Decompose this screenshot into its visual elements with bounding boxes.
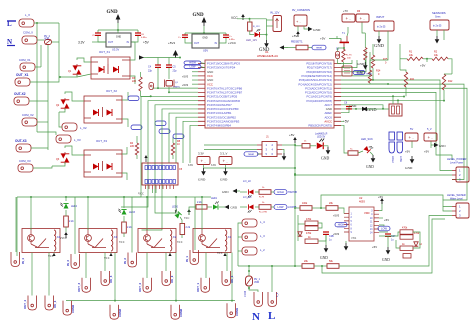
pad COM_X3	[18, 164, 33, 172]
supply 5_V	[424, 133, 437, 141]
relay K3 coil	[111, 230, 113, 251]
svg-text:GND: GND	[357, 62, 365, 66]
wire	[189, 207, 196, 215]
wire	[443, 30, 445, 40]
ground A	[201, 168, 206, 176]
svg-text:+ .: + .	[428, 135, 433, 140]
svg-text:GND: GND	[382, 258, 390, 262]
wire	[260, 34, 267, 36]
ground	[116, 14, 121, 23]
wire	[136, 155, 138, 159]
svg-text:VCC: VCC	[231, 16, 238, 20]
wire	[249, 19, 251, 22]
svg-text:OUT_X3: OUT_X3	[96, 139, 107, 143]
wire x	[175, 197, 177, 212]
wire	[318, 234, 326, 241]
capacitor C2B	[323, 232, 329, 234]
junction	[248, 270, 250, 272]
svg-text:OUT_1: OUT_1	[196, 283, 200, 292]
svg-text:LOW: LOW	[381, 227, 387, 231]
junction	[294, 144, 296, 146]
svg-text:xVCC: xVCC	[60, 237, 67, 240]
pad IN_4	[11, 252, 20, 267]
wire	[172, 137, 174, 143]
svg-text:L_1: L_1	[275, 292, 279, 297]
pad L_X	[19, 19, 34, 27]
svg-text:L_X: L_X	[25, 13, 30, 17]
svg-text:OUT_3: OUT_3	[77, 283, 81, 292]
wire	[122, 173, 127, 180]
wire U1 pin 15 to header	[190, 125, 198, 163]
ground	[264, 40, 269, 48]
wire U2 loop top	[321, 195, 443, 208]
wire x	[267, 25, 274, 27]
wire	[399, 44, 401, 70]
wire	[358, 151, 363, 153]
net flag reset2	[244, 152, 258, 156]
wire	[122, 92, 128, 100]
wire	[314, 265, 327, 267]
wire XTAL2b	[169, 87, 198, 92]
junction	[294, 265, 296, 267]
pad L	[268, 292, 277, 307]
wire	[157, 58, 159, 66]
supply VCC K3	[110, 253, 112, 254]
pad COM_X1	[20, 63, 35, 71]
junction	[65, 196, 67, 198]
svg-text:OUT_X2: OUT_X2	[106, 89, 117, 93]
svg-text:LOW: LOW	[190, 64, 196, 68]
connector S3	[342, 66, 352, 76]
transistor T1	[340, 36, 350, 48]
wire	[372, 108, 389, 110]
resistor R1	[407, 57, 423, 60]
wire AVCC	[341, 120, 344, 122]
svg-text:COM2: COM2	[179, 308, 183, 317]
wire COM rail	[66, 300, 235, 302]
LEVEL_WATER stubs	[452, 207, 456, 216]
wire	[225, 33, 227, 35]
junction	[392, 95, 394, 97]
wire	[337, 48, 339, 51]
wire PC1	[341, 96, 404, 98]
wire	[257, 153, 260, 155]
svg-text:IN_2: IN_2	[123, 258, 127, 264]
resistor 470k pair 2	[400, 230, 413, 234]
svg-text:LED1: LED1	[211, 197, 218, 200]
connector IN_12V	[273, 16, 282, 32]
relay K2 transistor	[144, 229, 151, 245]
wire x	[180, 217, 182, 224]
wire	[379, 231, 388, 233]
svg-text:OU_1: OU_1	[230, 275, 234, 283]
svg-text:IN: IN	[127, 41, 130, 44]
wire x	[370, 54, 388, 70]
svg-text:L_4: L_4	[260, 220, 265, 224]
resistor R12	[442, 74, 445, 90]
ground arrow left3	[367, 108, 372, 110]
diode D4	[414, 242, 419, 246]
svg-text:0.33u: 0.33u	[141, 37, 147, 39]
wire	[282, 150, 284, 154]
wire LED rail	[17, 196, 211, 198]
svg-text:HIGH: HIGH	[189, 60, 196, 64]
wire	[240, 206, 247, 208]
wire x	[201, 62, 205, 65]
svg-text:R_12V: R_12V	[253, 26, 260, 28]
junction	[294, 173, 296, 175]
svg-text:470k: 470k	[306, 232, 312, 235]
optocoupler OK2	[84, 96, 122, 123]
junction	[321, 265, 323, 267]
capacitor C7	[182, 35, 188, 37]
resistor R15	[371, 55, 374, 68]
svg-text:LED0: LED0	[172, 206, 179, 209]
junction	[348, 108, 350, 110]
wire	[59, 108, 65, 112]
wire	[392, 96, 394, 104]
svg-text:OUT: OUT	[108, 41, 114, 44]
svg-text:COM4: COM4	[71, 304, 75, 313]
wire 12V rail	[237, 18, 267, 20]
pad L_2	[242, 247, 257, 255]
wire	[370, 83, 388, 84]
wire	[185, 32, 226, 34]
svg-text:2.2k: 2.2k	[127, 226, 132, 229]
varistor RV_2	[45, 40, 52, 45]
wire PC5 to level power	[341, 80, 452, 170]
svg-text:OUT-X2: OUT-X2	[14, 92, 26, 96]
net flag HIGH	[274, 190, 287, 195]
resistor 1k	[305, 239, 318, 243]
wire x4	[443, 207, 452, 212]
wire relay to pad	[104, 253, 106, 272]
junction	[231, 300, 233, 302]
wire	[225, 165, 227, 168]
svg-text:reset: reset	[367, 73, 373, 76]
wire supply stub	[192, 79, 198, 81]
svg-text:ATMEGA328-AU: ATMEGA328-AU	[257, 54, 278, 58]
LED LED2 green	[172, 209, 182, 219]
wire	[117, 30, 119, 33]
wire	[400, 58, 407, 60]
supply VCC arrow	[241, 14, 245, 20]
wire	[207, 206, 212, 208]
svg-text:SENSORS: SENSORS	[432, 11, 446, 15]
pad COM3	[110, 305, 119, 320]
svg-text:LOW: LOW	[278, 205, 284, 209]
svg-text:COM: COM	[243, 291, 247, 297]
opto wires	[84, 154, 122, 173]
wire	[219, 38, 226, 43]
net flag LOW	[274, 205, 287, 210]
svg-text:GND: GND	[198, 178, 206, 182]
wire	[436, 30, 438, 36]
svg-text:+5V: +5V	[420, 64, 425, 68]
svg-text:OUT_X1: OUT_X1	[16, 73, 29, 77]
junction	[294, 167, 296, 169]
ground C2B	[324, 245, 329, 253]
svg-text:GND: GND	[349, 104, 357, 108]
svg-text:470k: 470k	[414, 232, 420, 235]
relay K3 transistor	[85, 229, 92, 245]
triac Q3	[61, 152, 70, 164]
opto zener	[107, 110, 113, 116]
test point LOW	[397, 132, 403, 140]
junction	[175, 196, 177, 198]
svg-text:VDD: VDD	[364, 211, 370, 215]
wire J1 SCK	[204, 149, 257, 151]
wire relay to pad	[31, 253, 33, 296]
wire	[219, 206, 225, 208]
wire sense	[238, 265, 302, 267]
capacitor C8	[346, 107, 352, 109]
LED LED1 green	[213, 201, 219, 209]
varistor RV_1	[246, 276, 253, 286]
wire relay to pad	[114, 253, 116, 301]
svg-text:R_HI: R_HI	[259, 197, 264, 199]
supply box 2	[356, 14, 369, 22]
svg-text:LED_12V: LED_12V	[246, 38, 257, 42]
ground flag2	[233, 189, 238, 193]
wire PC4	[341, 84, 464, 179]
wire	[65, 227, 67, 232]
net flag	[159, 129, 170, 134]
net flag	[131, 125, 142, 130]
net flag	[155, 121, 166, 126]
svg-text:LO_HI: LO_HI	[243, 179, 251, 183]
net flag LOW xtal	[184, 64, 201, 68]
junction	[201, 196, 203, 198]
wire K4 drive	[30, 197, 32, 230]
wire	[98, 36, 106, 42]
ground j1	[282, 153, 287, 161]
pad OUT_1	[201, 278, 210, 293]
resistor R LED1	[196, 205, 207, 209]
svg-text:GND: GND	[202, 37, 208, 40]
junction	[249, 18, 251, 20]
svg-text:K3: K3	[114, 235, 118, 239]
wire	[372, 44, 374, 48]
relay K1 coil	[225, 230, 227, 251]
wire U1 pin 9	[121, 101, 198, 207]
svg-text:Level Power: Level Power	[450, 162, 463, 165]
pad OU_1	[222, 271, 231, 286]
wire	[250, 31, 254, 35]
resistor R8	[171, 143, 174, 155]
wire +5V vertical	[294, 143, 296, 266]
pad OU_4	[45, 296, 54, 311]
wire	[123, 197, 125, 208]
wire triac gate	[77, 58, 91, 62]
pad OU_2	[162, 271, 171, 286]
junction	[175, 300, 177, 302]
wire	[168, 58, 170, 66]
wire	[123, 233, 125, 237]
svg-text:in 2x.05: in 2x.05	[377, 26, 386, 29]
wire R_TX to PD1	[341, 62, 343, 68]
resistor R4	[135, 143, 138, 155]
wire relay to pad	[194, 197, 196, 250]
wire	[387, 237, 389, 248]
svg-text:LEVEL_POWER: LEVEL_POWER	[447, 157, 466, 161]
svg-text:22p: 22p	[148, 70, 153, 73]
wire	[130, 42, 135, 60]
svg-text:VCC: VCC	[184, 217, 190, 220]
pad OUT_X1	[15, 78, 30, 86]
resistor R3	[139, 77, 142, 91]
wire	[37, 132, 56, 135]
svg-text:+5V: +5V	[143, 41, 150, 45]
wire	[52, 162, 65, 166]
wire loop	[297, 215, 299, 241]
net flag reset	[312, 45, 326, 50]
ground arrow up	[174, 51, 178, 58]
wire	[347, 27, 348, 36]
wire relay to pad	[175, 253, 177, 301]
svg-text:R12: R12	[448, 80, 453, 83]
wire x	[201, 66, 205, 69]
junction	[372, 79, 374, 81]
wire ADC7	[341, 105, 383, 109]
svg-text:VCC: VCC	[217, 252, 223, 255]
wire	[137, 30, 139, 33]
triac Q1	[73, 64, 82, 76]
svg-text:COM3: COM3	[118, 308, 122, 317]
supply VCC K2	[169, 253, 171, 254]
wire relay to pad	[74, 197, 76, 254]
ground R13	[363, 62, 368, 70]
junction	[397, 99, 399, 101]
svg-text:+5V3: +5V3	[333, 232, 340, 236]
wire relay to pad	[85, 253, 87, 279]
svg-text:IN_1: IN_1	[185, 256, 189, 262]
svg-text:+5V: +5V	[378, 195, 383, 199]
wire	[181, 235, 183, 239]
wire	[29, 100, 48, 102]
wire supply stub	[192, 75, 198, 77]
junction	[203, 32, 205, 34]
wire	[140, 72, 142, 77]
wire	[338, 208, 344, 214]
svg-text:R_LOW: R_LOW	[259, 212, 268, 214]
wire level power 2	[295, 174, 452, 176]
wire relay to pad	[231, 253, 233, 301]
wire	[65, 197, 67, 201]
test point HIGH	[389, 132, 395, 140]
wire	[16, 197, 18, 256]
junction	[117, 29, 119, 31]
svg-text:OUT_2: OUT_2	[138, 283, 142, 292]
svg-text:220: 220	[132, 80, 137, 83]
wire K1 drive	[201, 197, 203, 230]
pad IN_2	[128, 253, 137, 268]
wire	[34, 22, 59, 24]
net flag HIGH xtal	[184, 60, 201, 64]
wire XTAL2a	[168, 68, 170, 80]
wire	[323, 146, 328, 147]
pad OUT_2	[143, 278, 152, 293]
svg-text:VCC: VCC	[138, 192, 144, 196]
wire x	[295, 145, 302, 147]
svg-text:+ .: + .	[346, 16, 351, 21]
wire	[364, 33, 366, 48]
LED LO_LO	[248, 204, 254, 212]
IC U1 ATMEGA328 box	[205, 60, 334, 128]
svg-text:3.3_V: 3.3_V	[220, 152, 227, 156]
wire	[172, 155, 174, 159]
svg-text:K1: K1	[228, 235, 232, 239]
component S2	[336, 51, 340, 58]
wire U1 pin 12 to header	[169, 113, 198, 163]
svg-text:GND: GND	[321, 157, 329, 161]
LED LO_HI	[248, 189, 254, 197]
svg-text:5V: 5V	[410, 127, 413, 131]
relay K4	[22, 229, 60, 253]
svg-text:3.3V: 3.3V	[211, 164, 216, 167]
svg-text:COM_X2: COM_X2	[22, 113, 34, 117]
capacitor C6	[135, 33, 141, 35]
supply VCC K1	[224, 253, 226, 254]
svg-text:INPUT: INPUT	[376, 15, 385, 19]
junction	[59, 76, 61, 78]
junction	[294, 174, 296, 176]
svg-text:GND: GND	[231, 206, 238, 210]
svg-text:+5V: +5V	[292, 34, 297, 38]
opto LED	[93, 110, 99, 116]
svg-text:LO_LO: LO_LO	[243, 195, 251, 199]
wire	[426, 59, 428, 62]
ground 5v	[410, 156, 415, 164]
wire U1 pin 13 to header	[176, 117, 198, 163]
wire U1 pin 8	[66, 97, 198, 197]
wire	[411, 142, 413, 149]
svg-text:GND: GND	[192, 13, 204, 18]
svg-text:RESET1: RESET1	[291, 40, 303, 44]
svg-text:GND: GND	[220, 178, 228, 182]
resistor R2	[432, 57, 448, 60]
pad L_3	[242, 233, 257, 241]
svg-text:4093: 4093	[359, 200, 365, 204]
wire	[240, 191, 247, 193]
svg-text:L_2: L_2	[260, 248, 265, 252]
wire	[136, 136, 138, 143]
LED LED_12V	[255, 29, 261, 37]
wire	[58, 23, 60, 77]
resistor Rs2	[327, 264, 339, 269]
wire	[40, 45, 42, 67]
regulator U5V	[192, 34, 219, 48]
pad OUT_3	[82, 278, 91, 293]
LED 5V red	[317, 139, 324, 150]
wire	[122, 119, 128, 127]
resistor R LED3	[122, 222, 127, 233]
svg-text:470k: 470k	[306, 218, 312, 221]
wire to level water	[339, 216, 452, 267]
wire x	[396, 240, 400, 248]
wire supply stub	[192, 71, 198, 73]
svg-text:HIGH: HIGH	[277, 190, 284, 194]
wire relay to pad	[165, 253, 167, 272]
svg-text:PCINT4/MISO/PB4: PCINT4/MISO/PB4	[207, 124, 231, 128]
wire U1 pin 11	[142, 109, 199, 230]
junction	[146, 196, 148, 198]
svg-text:+5V: +5V	[320, 37, 325, 41]
wire	[364, 60, 366, 62]
relay K2 coil	[170, 230, 172, 251]
ground arrow left2	[284, 47, 288, 49]
ground	[435, 36, 440, 44]
